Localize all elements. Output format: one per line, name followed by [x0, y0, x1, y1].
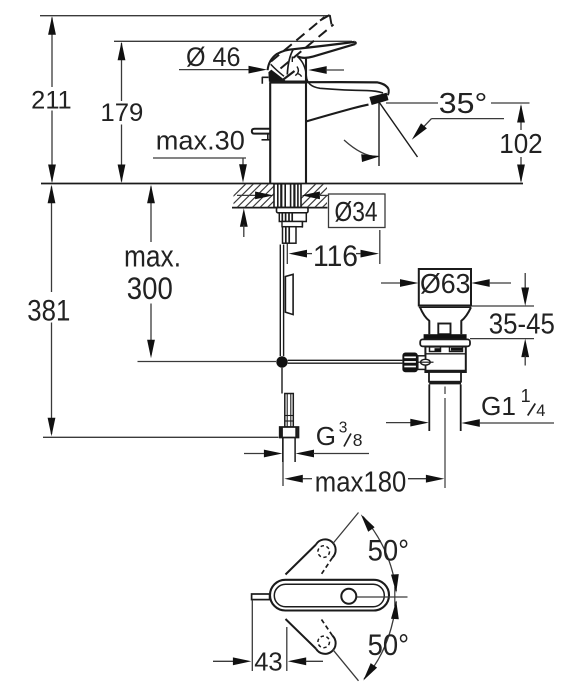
svg-text:Ø 46: Ø 46 [186, 42, 241, 72]
svg-text:max180: max180 [315, 467, 407, 499]
svg-text:max.30: max.30 [156, 125, 245, 156]
svg-text:G: G [316, 421, 336, 451]
svg-text:102: 102 [499, 128, 543, 159]
svg-text:35°: 35° [439, 88, 488, 120]
svg-text:4: 4 [536, 402, 545, 420]
svg-text:1: 1 [521, 386, 531, 406]
svg-text:G1: G1 [481, 391, 516, 421]
svg-text:35-45: 35-45 [489, 309, 555, 341]
svg-text:43: 43 [254, 647, 283, 677]
svg-text:50°: 50° [368, 535, 410, 568]
svg-text:3: 3 [339, 419, 348, 436]
svg-text:Ø34: Ø34 [335, 196, 378, 227]
svg-text:300: 300 [127, 270, 173, 306]
svg-text:50°: 50° [368, 629, 410, 662]
svg-text:Ø63: Ø63 [420, 268, 471, 299]
svg-text:116: 116 [313, 240, 358, 273]
svg-text:8: 8 [353, 430, 363, 450]
svg-text:381: 381 [27, 295, 70, 328]
svg-text:max.: max. [124, 240, 181, 274]
svg-text:211: 211 [31, 87, 72, 115]
svg-text:179: 179 [100, 100, 143, 127]
